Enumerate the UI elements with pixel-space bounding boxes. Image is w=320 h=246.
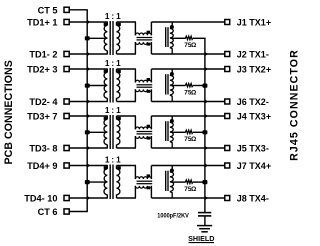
wire T1 secondary top to choke	[117, 21, 137, 23]
svg-text:J1 TX1+: J1 TX1+	[237, 18, 271, 28]
pin J5 TX3- (RJ45 side)	[225, 144, 269, 154]
junction shield rail / R4	[203, 180, 208, 184]
junction CT rail / center tap T1	[85, 36, 90, 40]
junction CT rail / center tap T3	[85, 130, 90, 134]
pin TD3- 8 (PCB side)	[29, 144, 69, 154]
svg-text:Ω: Ω	[191, 136, 197, 143]
pin J4 TX3+ (RJ45 side)	[225, 112, 271, 122]
wire T2 secondary bottom to choke	[117, 101, 137, 103]
svg-text:J4 TX3+: J4 TX3+	[237, 112, 271, 122]
pin TD1- 2 (PCB side)	[29, 50, 69, 60]
wire resistor R2 to shield rail	[193, 85, 205, 87]
svg-text:Ω: Ω	[191, 90, 197, 97]
wire choke L3 bottom to RJ45	[151, 146, 225, 151]
svg-text:TD2- 4: TD2- 4	[29, 97, 58, 107]
svg-text:TD3+ 7: TD3+ 7	[27, 112, 57, 122]
wire T1 secondary bottom to choke	[117, 53, 137, 55]
wire primary center tap T4	[87, 181, 107, 183]
pin J3 TX2+ (RJ45 side)	[225, 65, 271, 75]
wire choke L2 top to RJ45	[151, 67, 225, 72]
resistor R2	[185, 84, 193, 87]
pin TD4- 10 (PCB side)	[24, 194, 69, 204]
pin J2 TX1- (RJ45 side)	[225, 50, 269, 60]
autotransformer coil L8 (center-tapped)	[166, 166, 174, 199]
svg-text:PCB CONNECTIONS: PCB CONNECTIONS	[3, 60, 15, 164]
pin TD2+ 3 (PCB side)	[27, 65, 69, 75]
junction CT rail / center tap T4	[85, 180, 90, 184]
wire T4 secondary top to choke	[117, 165, 137, 167]
junction shield rail / R3	[203, 130, 208, 134]
wire choke L1 bottom to RJ45	[151, 52, 225, 57]
wire primary center tap T3	[87, 131, 107, 133]
wire CT5 to CT rail	[69, 9, 88, 11]
pin TD3+ 7 (PCB side)	[27, 112, 69, 122]
svg-text:1:1: 1:1	[105, 106, 123, 115]
svg-text:SHIELD: SHIELD	[188, 234, 214, 243]
svg-text:J5 TX3-: J5 TX3-	[237, 144, 269, 154]
wire TD4- to transformer	[69, 196, 108, 201]
svg-text:RJ45 CONNECTOR: RJ45 CONNECTOR	[289, 49, 301, 161]
svg-text:1000pF/2KV: 1000pF/2KV	[157, 213, 189, 220]
wire resistor R1 to shield rail	[193, 37, 206, 39]
pin TD4+ 9 (PCB side)	[27, 161, 69, 171]
autotransformer coil L6 (center-tapped)	[166, 69, 174, 102]
svg-text:TD1+ 1: TD1+ 1	[27, 18, 57, 28]
wire choke L4 top to RJ45	[151, 163, 225, 168]
wire CT rail (net CT)	[86, 10, 88, 212]
common-mode choke L2	[135, 69, 152, 102]
wire T3 secondary top to choke	[117, 115, 137, 117]
pin J8 TX4- (RJ45 side)	[225, 194, 269, 204]
wire TD4+ to transformer	[69, 163, 108, 168]
wire center tap L8 to resistor R4	[170, 181, 185, 183]
common-mode choke L4	[135, 166, 152, 199]
wire TD3+ to transformer	[69, 114, 108, 119]
svg-text:J3 TX2+: J3 TX2+	[237, 65, 271, 75]
junction CT rail / center tap T2	[85, 84, 90, 88]
wire center tap L7 to resistor R3	[170, 131, 185, 133]
transformer T2 (1:1 isolation)	[104, 68, 121, 103]
wire choke L4 bottom to RJ45	[151, 196, 225, 201]
autotransformer coil L5 (center-tapped)	[166, 22, 174, 54]
svg-text:J7 TX4+: J7 TX4+	[237, 161, 271, 171]
svg-text:CT 6: CT 6	[38, 207, 58, 217]
wire T4 secondary bottom to choke	[117, 197, 137, 199]
pin TD2- 4 (PCB side)	[29, 97, 69, 107]
wire resistor R4 to shield rail	[193, 181, 205, 183]
wire choke L3 top to RJ45	[151, 114, 225, 119]
resistor R1	[185, 36, 193, 39]
svg-text:TD3- 8: TD3- 8	[29, 144, 57, 154]
pin J7 TX4+ (RJ45 side)	[225, 161, 271, 171]
wire capacitor to ground	[204, 216, 206, 226]
wire TD1+ to transformer	[69, 20, 108, 25]
pin J1 TX1+ (RJ45 side)	[225, 18, 271, 28]
wire CT6 to CT rail	[69, 211, 88, 213]
wire center tap L6 to resistor R2	[170, 85, 185, 87]
wire TD3- to transformer	[69, 146, 108, 151]
svg-text:J2 TX1-: J2 TX1-	[237, 50, 269, 60]
pin CT 5 (PCB side)	[38, 5, 70, 15]
wire center tap L5 to resistor R1	[170, 37, 185, 39]
transformer T1 (1:1 isolation)	[104, 21, 121, 55]
wire TD2- to transformer	[69, 99, 108, 104]
svg-text:Ω: Ω	[191, 42, 197, 49]
svg-text:TD1- 2: TD1- 2	[29, 50, 57, 60]
svg-text:1:1: 1:1	[105, 12, 123, 21]
svg-text:1:1: 1:1	[105, 155, 123, 164]
svg-text:J8 TX4-: J8 TX4-	[237, 194, 269, 204]
pin CT 6 (PCB side)	[38, 207, 70, 217]
pin TD1+ 1 (PCB side)	[27, 18, 69, 28]
wire choke L1 top to RJ45	[151, 21, 225, 23]
wire T3 secondary bottom to choke	[117, 147, 137, 149]
svg-text:CT 5: CT 5	[38, 5, 58, 15]
capacitor C1 1000pF/2KV	[198, 213, 211, 216]
wire T2 secondary top to choke	[117, 68, 137, 70]
autotransformer coil L7 (center-tapped)	[166, 116, 174, 148]
svg-text:TD4+ 9: TD4+ 9	[27, 161, 57, 171]
svg-text:1:1: 1:1	[105, 59, 123, 68]
label SHIELD	[188, 234, 214, 243]
transformer T3 (1:1 isolation)	[104, 115, 121, 149]
wire shield termination rail	[204, 38, 206, 212]
common-mode choke L1	[135, 22, 152, 54]
wire choke L2 bottom to RJ45	[151, 99, 225, 104]
resistor R3	[185, 130, 193, 133]
transformer T4 (1:1 isolation)	[104, 165, 121, 200]
wire primary center tap T1	[87, 37, 107, 39]
common-mode choke L3	[135, 116, 152, 148]
wire primary center tap T2	[87, 85, 107, 87]
junction shield rail / R2	[203, 84, 208, 88]
wire TD2+ to transformer	[69, 67, 108, 72]
ground symbol (chassis shield)	[197, 226, 212, 232]
wire TD1- to transformer	[69, 52, 108, 57]
pin J6 TX2- (RJ45 side)	[225, 97, 269, 107]
wire resistor R3 to shield rail	[193, 131, 205, 133]
svg-text:TD4- 10: TD4- 10	[24, 194, 57, 204]
svg-text:J6 TX2-: J6 TX2-	[237, 97, 269, 107]
svg-text:TD2+ 3: TD2+ 3	[27, 65, 57, 75]
svg-text:Ω: Ω	[191, 186, 197, 193]
resistor R4	[185, 180, 193, 183]
